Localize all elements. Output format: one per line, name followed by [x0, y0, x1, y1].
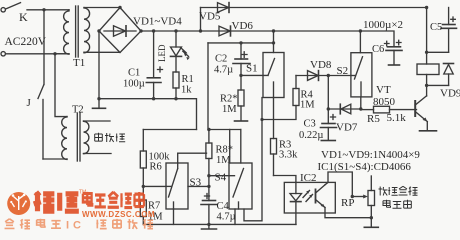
node [207, 185, 210, 188]
wire [296, 75, 351, 77]
AC terminal bottom [1, 52, 5, 56]
node [351, 195, 354, 198]
optocoupler IC2 [284, 172, 335, 224]
svg-text:4.7µ: 4.7µ [214, 65, 233, 76]
svg-text:J: J [27, 97, 32, 109]
bottom row 全球最大IC采购网站 [5, 219, 61, 229]
watermark [5, 190, 156, 232]
node [359, 29, 362, 32]
AC terminal top [1, 8, 5, 12]
switch K [6, 3, 28, 24]
ground [420, 130, 437, 132]
diode VD9 [440, 64, 460, 100]
svg-text:1M: 1M [222, 104, 237, 115]
label 电位器 [383, 200, 411, 209]
node [327, 74, 330, 77]
svg-text:C3: C3 [304, 119, 316, 130]
long horizontal wire left [143, 129, 196, 131]
capacitor C3 [299, 109, 337, 141]
resistor R5 [361, 106, 417, 125]
node [272, 41, 275, 44]
node [207, 174, 210, 177]
svg-text:0.22µ: 0.22µ [299, 130, 323, 141]
wire S2 control [360, 97, 362, 109]
wire [426, 75, 428, 97]
bridge rectifier VD1~VD4 [99, 8, 141, 53]
svg-text:VT: VT [376, 84, 391, 96]
svg-text:K: K [19, 10, 28, 24]
wire [240, 130, 242, 164]
node [42, 8, 45, 11]
wire riser to VD5 rail [200, 8, 202, 32]
ground [364, 226, 378, 228]
wire [273, 31, 275, 53]
svg-text:1k: 1k [181, 85, 192, 96]
wire S3 control [173, 209, 175, 224]
ground [321, 140, 335, 142]
wire [43, 158, 67, 160]
ground [202, 224, 217, 229]
resistor R6 [140, 130, 170, 187]
svg-text:VD7: VD7 [336, 122, 358, 134]
node [152, 97, 155, 100]
node [359, 107, 362, 110]
wire [27, 9, 69, 11]
node [53, 52, 56, 55]
label 去功放 [95, 133, 126, 142]
resistor R8 [206, 130, 233, 187]
svg-text:C2: C2 [215, 54, 227, 65]
capacitor C2 [214, 43, 250, 76]
transformer T1 primary [55, 10, 69, 54]
transformer T1 core [76, 6, 79, 57]
wire [84, 153, 112, 155]
wire to S3 [143, 185, 166, 187]
node [425, 84, 428, 87]
wire relay branch [426, 8, 428, 65]
diode VD8 [308, 59, 332, 80]
svg-text:S4: S4 [215, 172, 227, 184]
node [199, 29, 202, 32]
node [174, 97, 177, 100]
node [239, 41, 242, 44]
ground [93, 107, 106, 109]
wire [141, 30, 201, 32]
svg-text:VD1~VD9:1N4004×9: VD1~VD9:1N4004×9 [321, 149, 420, 161]
transformer T2 [55, 54, 89, 161]
resistor R4 [293, 76, 315, 111]
wire long vertical [207, 43, 209, 130]
resistor R2 [220, 75, 244, 119]
svg-text:R1: R1 [182, 74, 194, 85]
logo [7, 192, 30, 215]
wire R3 jog to IC2 [274, 176, 296, 183]
svg-text:IC1(S1~S4):CD4066: IC1(S1~S4):CD4066 [318, 161, 412, 173]
analog switch S1 [241, 53, 284, 98]
svg-text:IC2: IC2 [300, 172, 317, 184]
wire S4 control to rail [234, 209, 236, 224]
node [97, 29, 100, 32]
svg-text:4.7µ: 4.7µ [217, 212, 236, 223]
resistor R7 [140, 186, 163, 224]
wire [84, 51, 120, 53]
analog switch S2 [337, 31, 372, 97]
svg-text:T1: T1 [73, 57, 85, 69]
svg-text:S1: S1 [246, 63, 258, 75]
wire T2 secondary stubs [84, 120, 111, 122]
potentiometer RP [368, 176, 375, 227]
node [425, 51, 428, 54]
svg-text:3.3k: 3.3k [279, 150, 298, 161]
svg-text:VD1~VD4: VD1~VD4 [133, 16, 182, 28]
capacitor C5 [430, 8, 457, 53]
diode VD7 [328, 104, 361, 133]
big 维库 [34, 192, 79, 211]
svg-text:VD9: VD9 [440, 88, 460, 100]
node [118, 6, 121, 9]
diode VD6 [201, 20, 361, 36]
svg-text:R5: R5 [367, 113, 380, 125]
svg-text:R6: R6 [150, 162, 162, 173]
node [97, 97, 100, 100]
wire [6, 53, 69, 55]
capacitor C4 [201, 186, 236, 224]
wire [84, 7, 120, 9]
transformer T1 secondary [84, 8, 90, 53]
svg-text:LED: LED [157, 44, 167, 62]
wire IC2 collector to RP wiper [325, 172, 352, 197]
resistor R3 [271, 98, 299, 176]
svg-text:IC: IC [66, 220, 85, 232]
svg-text:R8*: R8* [216, 145, 234, 156]
wire S3 output right [188, 185, 209, 187]
node [139, 29, 142, 32]
svg-text:100µ: 100µ [123, 79, 145, 90]
wire [427, 51, 449, 53]
node [272, 29, 275, 32]
label 功放音量 [379, 186, 418, 195]
svg-text:VD6: VD6 [232, 20, 254, 32]
wire [208, 42, 274, 44]
transistor VT 8050 [373, 84, 427, 130]
电子市场网 [83, 192, 144, 208]
relay K coil [417, 64, 439, 75]
node [174, 29, 177, 32]
wire ground rail [99, 99, 197, 130]
svg-text:C1: C1 [128, 68, 140, 79]
ground [235, 120, 248, 122]
wire S1 lower left pin [244, 98, 262, 221]
diode VD5 [199, 3, 427, 23]
LED [157, 31, 190, 72]
wiper arrow [341, 195, 368, 210]
wire C6 branch [360, 31, 394, 47]
capacitor C6 [372, 40, 402, 65]
wire S4 top legs [229, 130, 231, 164]
analog switch S3 [166, 163, 202, 209]
node [152, 29, 155, 32]
svg-text:VD5: VD5 [199, 11, 221, 23]
node [207, 223, 210, 226]
wire [98, 31, 100, 107]
bottom ground rail [143, 223, 296, 225]
capacitor C1 [123, 31, 163, 99]
wire IC2 emitter [325, 208, 371, 218]
svg-text:C4: C4 [217, 201, 230, 212]
wire [427, 84, 449, 86]
wire R4 link [262, 106, 296, 120]
svg-text:T2: T2 [72, 105, 84, 116]
wire S3 top jog [178, 153, 207, 163]
svg-text:1M: 1M [300, 100, 315, 111]
wire [327, 76, 329, 110]
svg-text:C5: C5 [430, 22, 442, 33]
svg-text:S2: S2 [337, 65, 349, 77]
analog switch S4 [209, 163, 252, 209]
node [142, 185, 145, 188]
switch J [27, 10, 45, 159]
svg-text:WWW.DZSC.COM: WWW.DZSC.COM [82, 210, 155, 219]
svg-text:VD8: VD8 [310, 59, 332, 71]
svg-text:RP: RP [341, 197, 354, 209]
node [260, 118, 263, 121]
svg-text:AC220V: AC220V [5, 36, 47, 48]
node [425, 6, 428, 9]
node [370, 216, 373, 219]
long horizontal wire right [209, 129, 241, 131]
node [239, 74, 242, 77]
svg-text:C6: C6 [372, 44, 384, 55]
node [327, 107, 330, 110]
node [207, 128, 210, 131]
svg-text:R2*: R2* [220, 94, 238, 105]
svg-text:1000µ×2: 1000µ×2 [363, 19, 403, 31]
svg-text:5.1k: 5.1k [387, 112, 407, 124]
resistor R1 [173, 72, 194, 99]
